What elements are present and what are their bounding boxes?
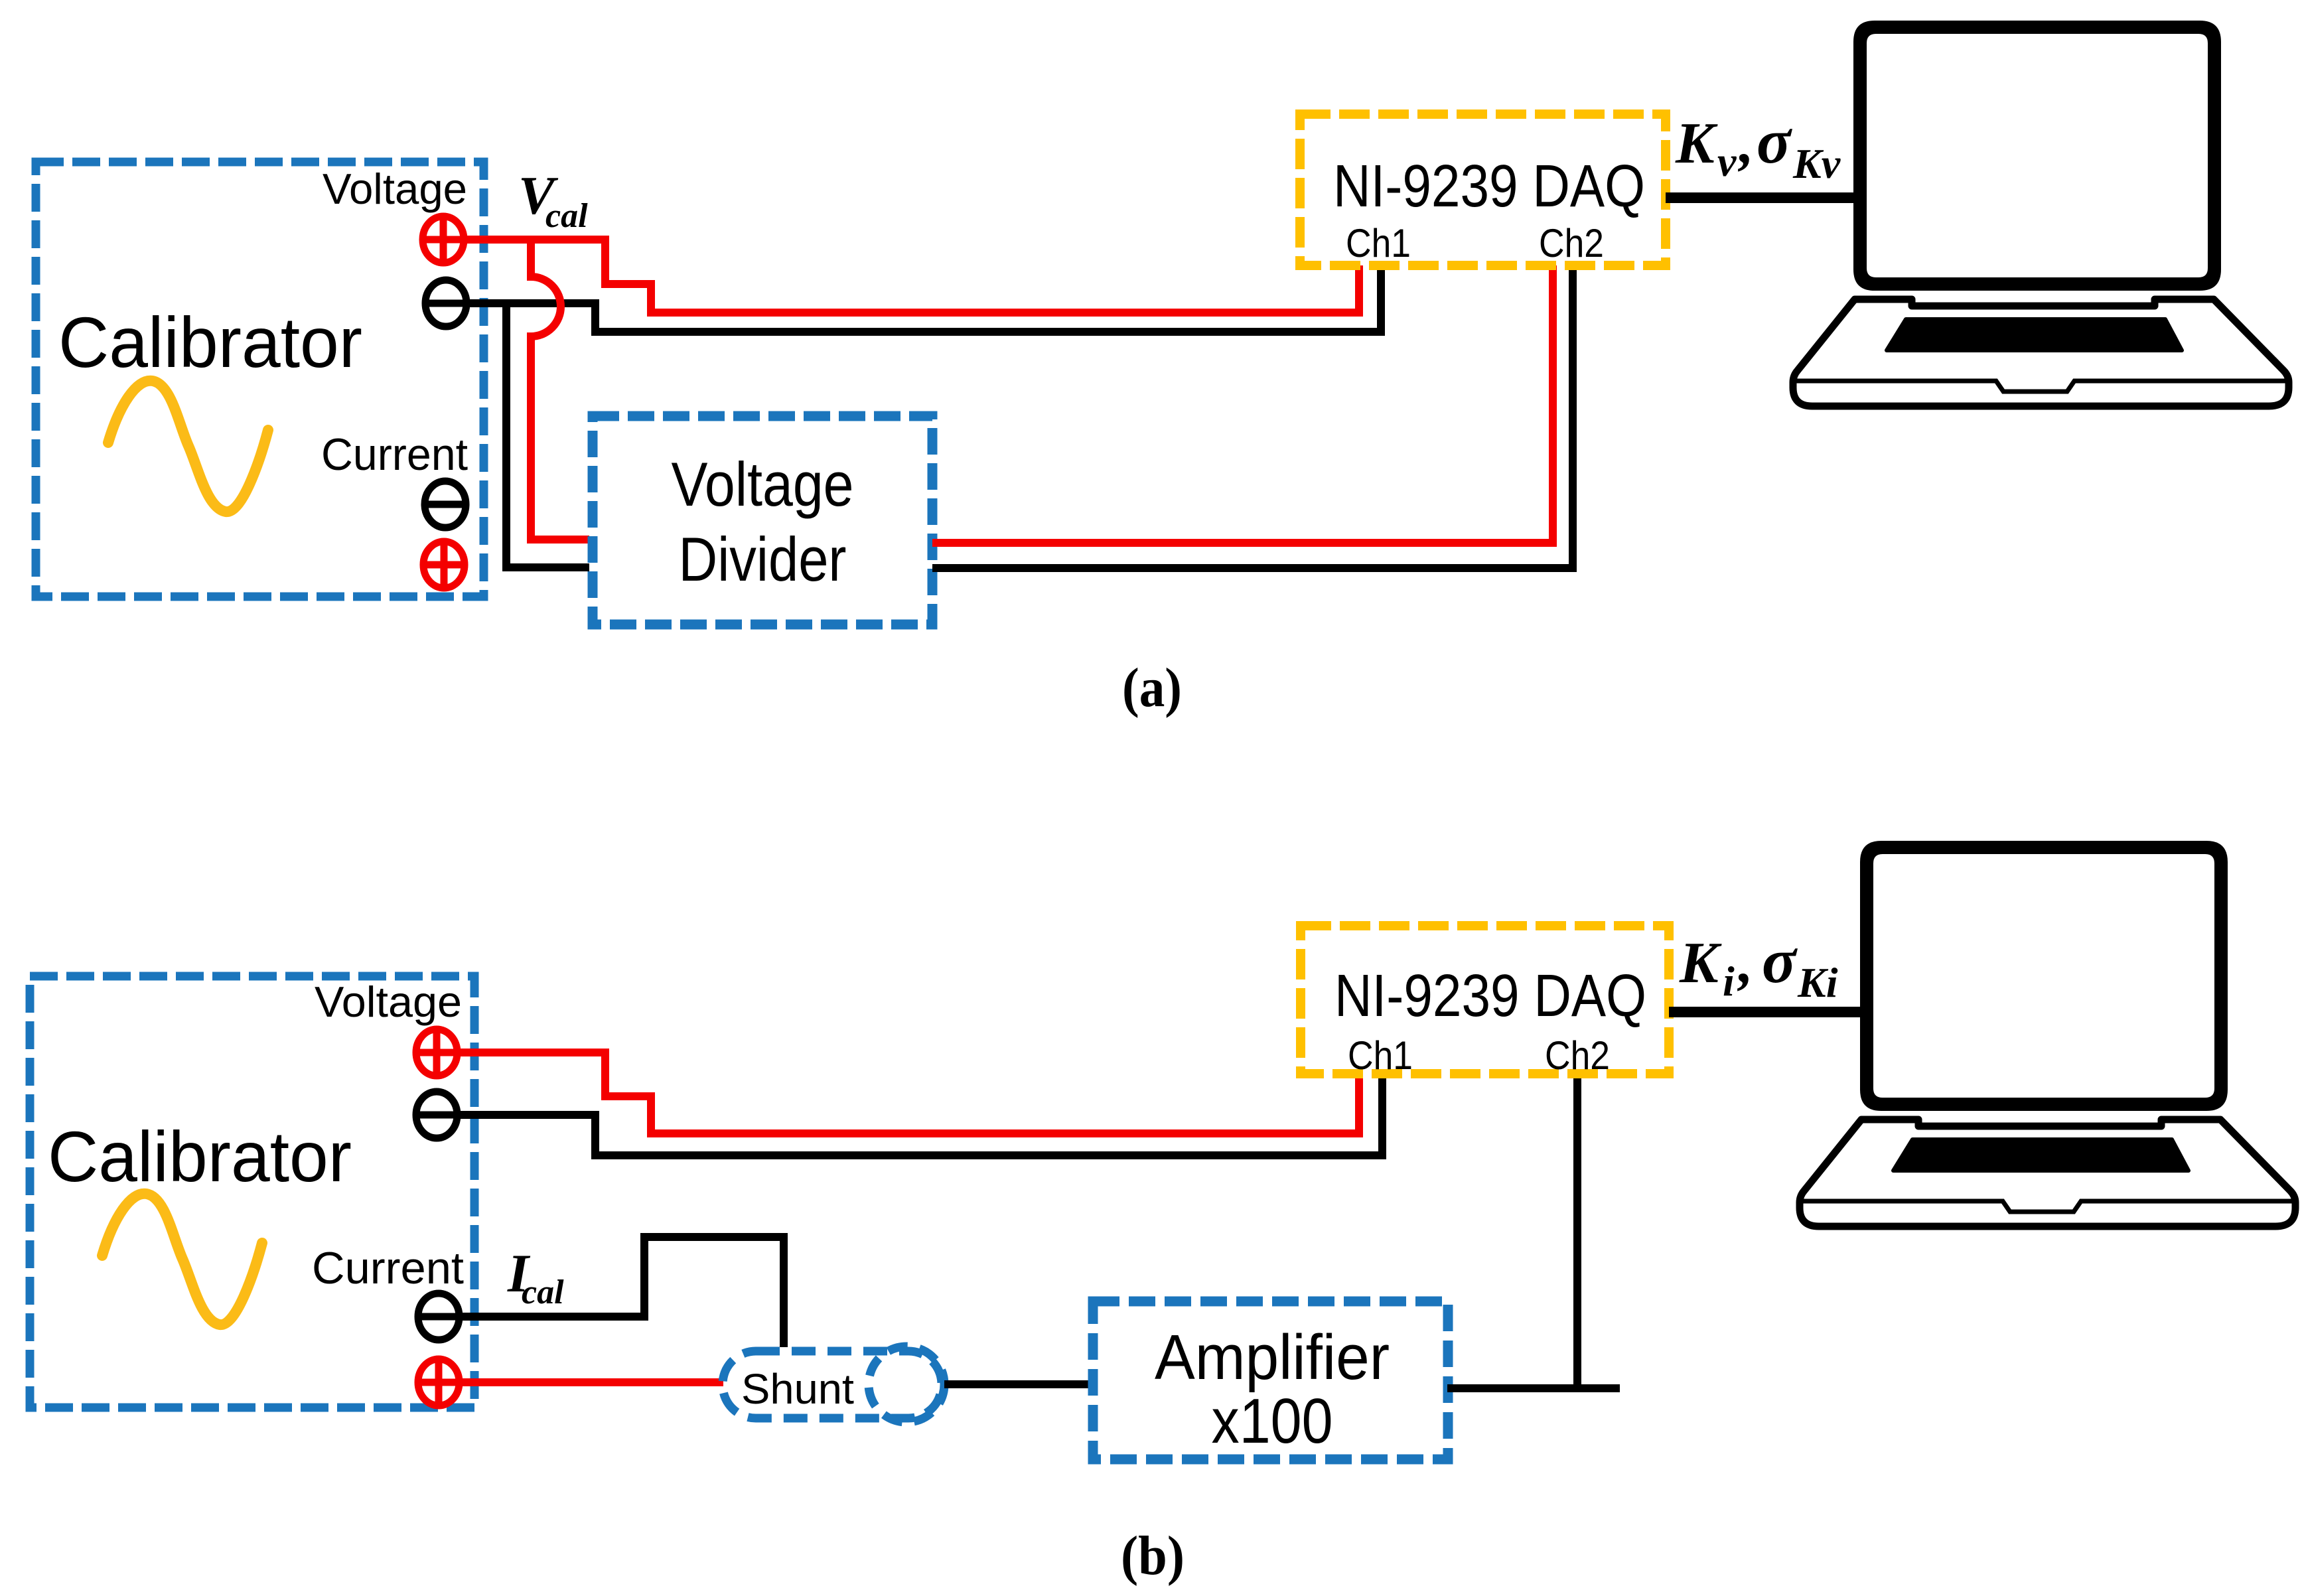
wire black current minus to shunt (b) — [460, 1237, 784, 1347]
svg-text:Calibrator: Calibrator — [48, 1116, 352, 1197]
terminal voltage plus (b) — [416, 1029, 457, 1076]
svg-text:Divider: Divider — [679, 524, 847, 594]
svg-text:Calibrator: Calibrator — [58, 302, 362, 382]
wire black amplifier to DAQ Ch2 (b) — [1447, 1384, 1620, 1392]
svg-text:Kv: Kv — [1792, 140, 1841, 187]
laptop computer (b) — [1800, 841, 2295, 1226]
sine wave source symbol (b) — [102, 1194, 262, 1325]
svg-text:σ: σ — [1757, 106, 1792, 177]
svg-text:Voltage: Voltage — [323, 165, 467, 213]
laptop computer (a) — [1793, 21, 2289, 406]
amplifier box — [1093, 1301, 1448, 1459]
svg-text:Current: Current — [312, 1243, 464, 1293]
DAQ box (b) — [1301, 926, 1669, 1074]
terminal current minus (a) — [425, 481, 466, 528]
svg-text:NI-9239 DAQ: NI-9239 DAQ — [1333, 153, 1645, 220]
svg-text:,: , — [1738, 111, 1754, 176]
svg-text:Ki: Ki — [1797, 959, 1838, 1006]
svg-text:K: K — [1675, 111, 1718, 176]
calibrator box (a) — [36, 162, 484, 597]
svg-text:x100: x100 — [1212, 1386, 1333, 1457]
svg-text:cal: cal — [522, 1273, 564, 1311]
wire DAQ to laptop (a) — [1666, 192, 1861, 203]
terminal current plus (b) — [418, 1359, 459, 1406]
wire black voltage minus to DAQ Ch1 (b) — [458, 1076, 1382, 1155]
svg-text:(a): (a) — [1122, 657, 1182, 719]
terminal current minus (b) — [418, 1293, 459, 1340]
sine wave source symbol (a) — [108, 381, 268, 512]
calibrator box (b) — [30, 976, 474, 1408]
svg-text:v: v — [1717, 138, 1737, 185]
voltage divider box — [593, 416, 932, 624]
svg-text:K: K — [1679, 931, 1722, 995]
svg-text:Ch1: Ch1 — [1346, 221, 1411, 265]
svg-text:σ: σ — [1762, 925, 1798, 996]
svg-text:Shunt: Shunt — [741, 1365, 854, 1413]
shunt clamp circle — [869, 1346, 944, 1422]
DAQ box (a) — [1300, 114, 1666, 265]
svg-text:i: i — [1723, 958, 1735, 1005]
svg-text:Voltage: Voltage — [315, 978, 462, 1026]
wire black voltage minus to DAQ Ch1 (a) — [467, 265, 1381, 332]
terminal voltage plus (a) — [423, 216, 464, 263]
wire DAQ to laptop (b) — [1669, 1007, 1868, 1017]
wire red branch with hop over black to voltage divider — [531, 240, 589, 540]
wire red current plus to shunt (b) — [460, 1378, 723, 1386]
svg-text:cal: cal — [545, 197, 588, 235]
svg-text:Ch2: Ch2 — [1545, 1033, 1610, 1078]
svg-text:Ch1: Ch1 — [1348, 1033, 1413, 1078]
terminal current plus (a) — [423, 542, 465, 588]
wire red voltage divider to DAQ Ch2 (a) — [932, 265, 1553, 543]
svg-text:Voltage: Voltage — [672, 449, 854, 519]
wire red voltage plus to DAQ Ch1 (b) — [458, 1052, 1359, 1133]
svg-text:,: , — [1737, 931, 1753, 995]
svg-text:Amplifier: Amplifier — [1155, 1322, 1390, 1393]
terminal voltage minus (b) — [416, 1092, 457, 1138]
svg-text:(b): (b) — [1121, 1525, 1185, 1587]
svg-text:Current: Current — [321, 429, 468, 480]
terminal voltage minus (a) — [425, 280, 467, 326]
svg-text:NI-9239 DAQ: NI-9239 DAQ — [1334, 963, 1646, 1029]
svg-text:Ch2: Ch2 — [1539, 221, 1604, 265]
wire black voltage divider to DAQ Ch2 (a) — [932, 265, 1573, 568]
wire black branch to voltage divider — [506, 306, 589, 567]
shunt capsule — [723, 1351, 942, 1418]
wire red voltage plus to DAQ Ch1 (a) — [465, 240, 1359, 313]
wire black shunt to amplifier — [944, 1380, 1092, 1388]
